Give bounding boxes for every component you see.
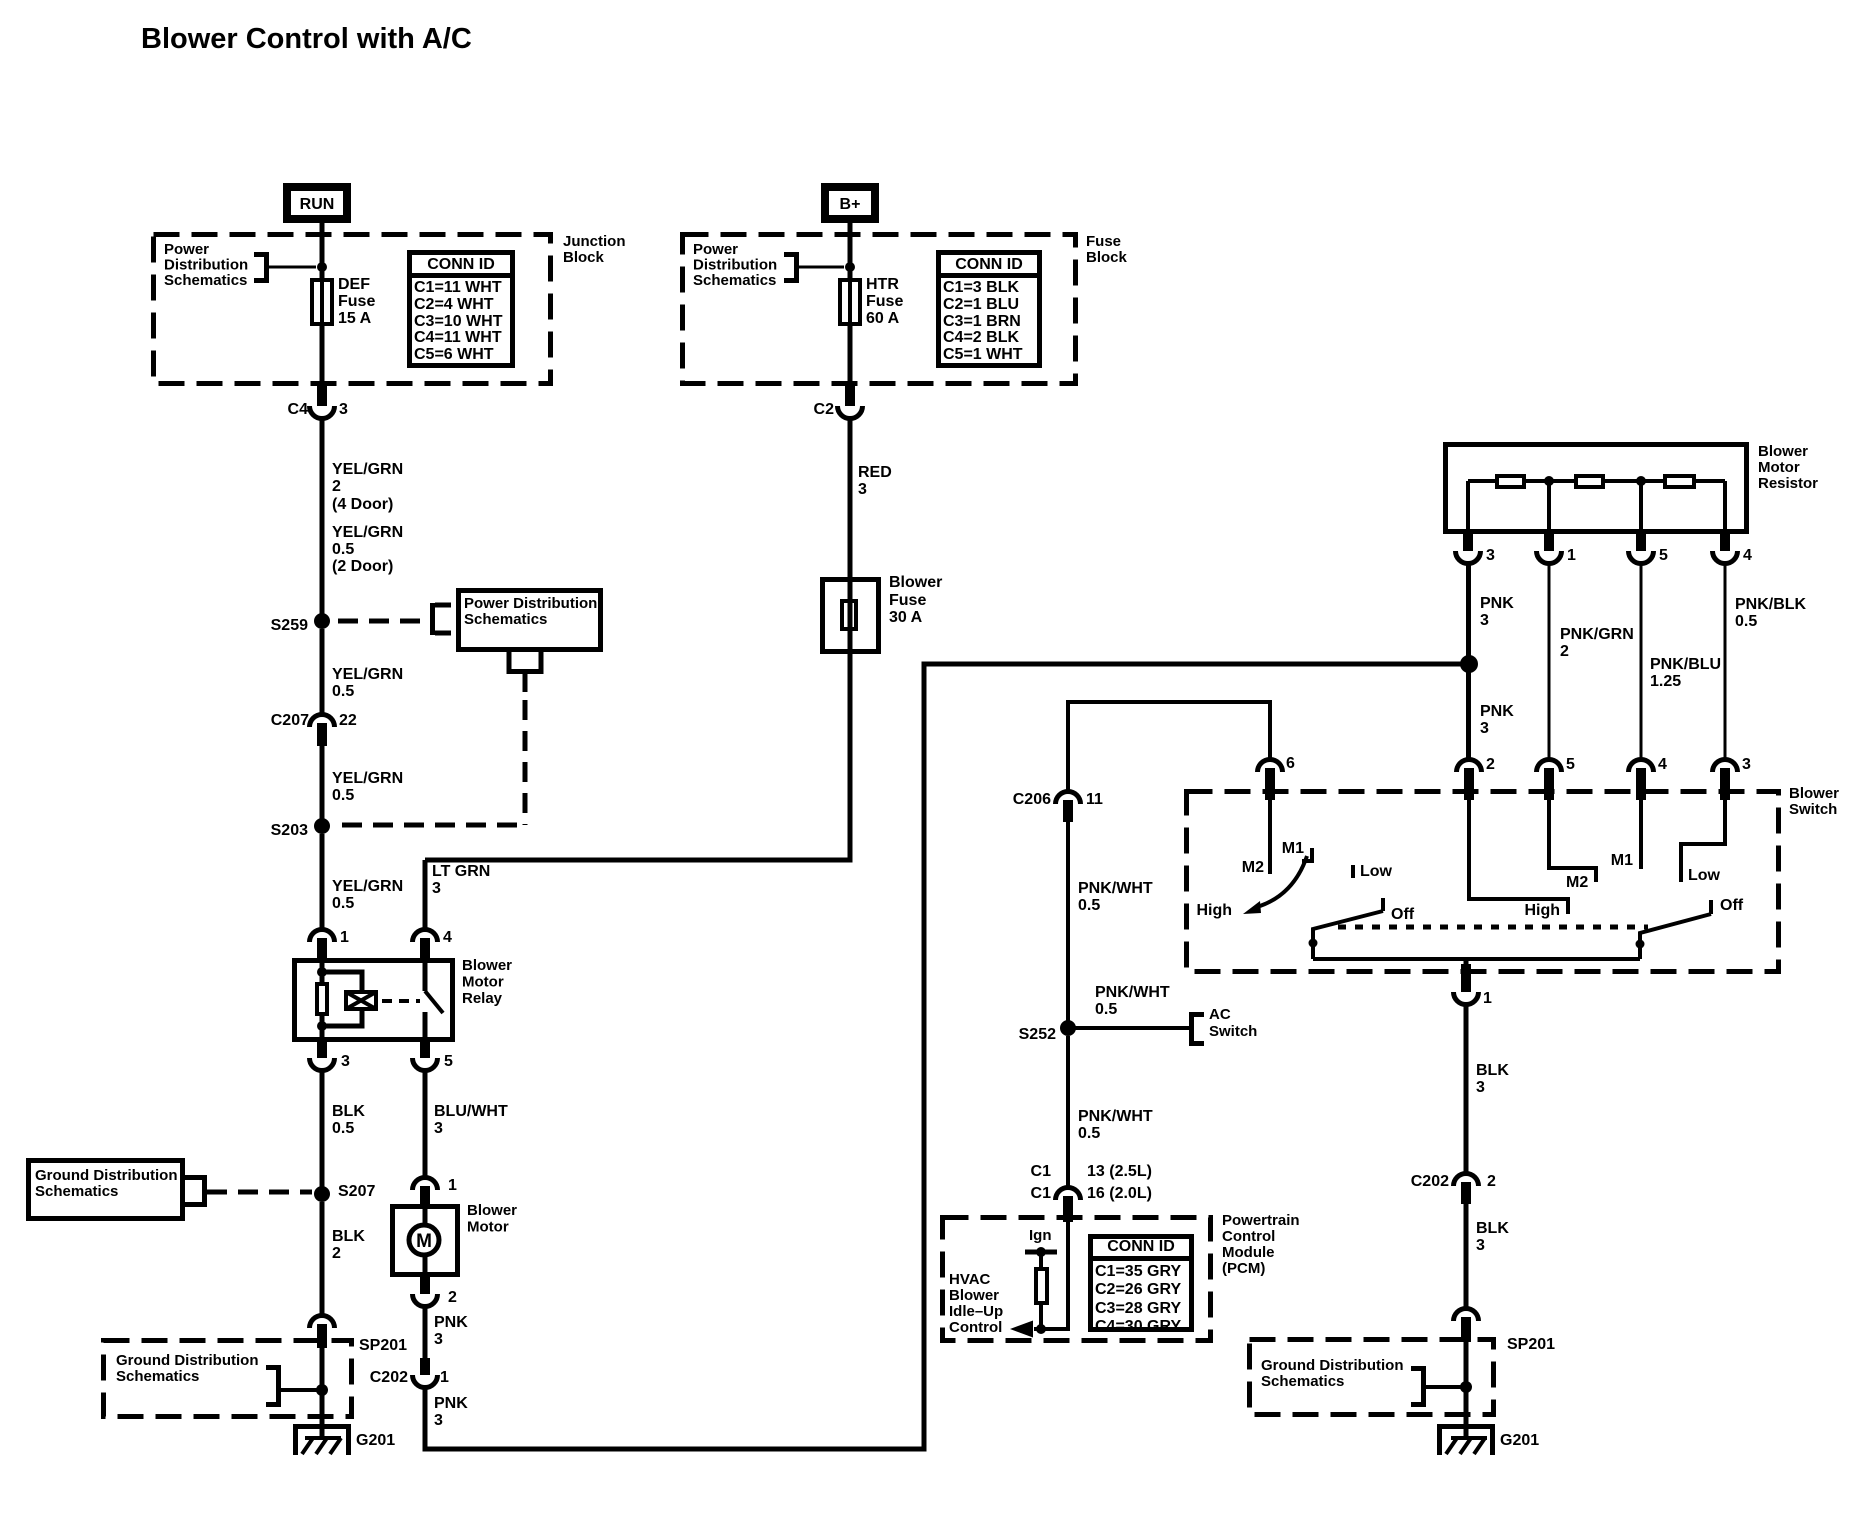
svg-text:11: 11 bbox=[1086, 791, 1103, 808]
svg-text:3: 3 bbox=[339, 401, 348, 418]
svg-text:M: M bbox=[416, 1231, 432, 1252]
svg-text:Schematics: Schematics bbox=[35, 1183, 118, 1200]
svg-text:0.5: 0.5 bbox=[332, 1120, 354, 1137]
svg-text:0.5: 0.5 bbox=[332, 683, 354, 700]
svg-text:2: 2 bbox=[1486, 756, 1495, 773]
relay coil box with X bbox=[346, 992, 376, 1009]
svg-text:1: 1 bbox=[1567, 547, 1576, 564]
svg-text:C4=11 WHT: C4=11 WHT bbox=[414, 329, 502, 346]
switch pin 3 wire to Low contact (right section) bbox=[1681, 800, 1725, 884]
wire label PNK/GRN 2 bbox=[1560, 626, 1634, 660]
wire resistor pin 5 to switch pin 4 (PNK/BLU) bbox=[1640, 563, 1643, 761]
svg-text:S207: S207 bbox=[338, 1183, 375, 1200]
svg-text:Block: Block bbox=[563, 249, 605, 266]
connector C207 pin 22 bbox=[271, 712, 357, 746]
resistor internal bus wire bbox=[1468, 481, 1725, 534]
relay coil branch wire bbox=[322, 958, 362, 992]
connector resistor pin 3 bbox=[1456, 534, 1496, 564]
svg-text:PNK: PNK bbox=[434, 1395, 468, 1412]
node PNK feed junction bbox=[1460, 655, 1478, 673]
connector relay pin 3 bbox=[310, 1042, 351, 1071]
wire switch pin 1 to C202 (BLK) bbox=[1464, 1004, 1469, 1175]
connector C206 pin 11 bbox=[1013, 791, 1103, 822]
connector blower switch pin 1 bbox=[1454, 959, 1493, 1007]
CONN ID table (PCM) bbox=[1090, 1237, 1192, 1336]
blower motor label bbox=[467, 1202, 517, 1236]
svg-text:Fuse: Fuse bbox=[889, 592, 926, 609]
svg-text:C3=28 GRY: C3=28 GRY bbox=[1095, 1300, 1181, 1317]
connector resistor pin 5 bbox=[1629, 534, 1669, 564]
node S252 splice bbox=[1019, 1020, 1076, 1043]
svg-text:G201: G201 bbox=[1500, 1432, 1539, 1449]
wire B+ to HTR fuse bbox=[848, 223, 853, 280]
wire label YEL/GRN 2 (4 Door) bbox=[332, 461, 403, 513]
svg-text:Ign: Ign bbox=[1029, 1227, 1052, 1244]
svg-text:RUN: RUN bbox=[300, 196, 335, 213]
node resistor bus junction 1 bbox=[1544, 476, 1554, 486]
svg-text:PNK/WHT: PNK/WHT bbox=[1095, 984, 1170, 1001]
svg-text:Power: Power bbox=[693, 241, 738, 258]
node: junction dot on HTR fuse feed bbox=[845, 262, 855, 272]
dashed reference wire to S207 bbox=[185, 1175, 312, 1207]
Ign supply tap bbox=[1025, 1227, 1057, 1269]
resistor element R3 bbox=[1665, 476, 1694, 487]
svg-text:BLK: BLK bbox=[1476, 1062, 1509, 1079]
switch Off contact (right section) bbox=[1711, 897, 1744, 914]
wire label PNK/WHT 0.5 (AC switch branch) bbox=[1095, 984, 1170, 1018]
svg-text:S203: S203 bbox=[271, 822, 308, 839]
fuse block label bbox=[1086, 233, 1128, 266]
switch wiper common bus wire bbox=[1313, 957, 1640, 961]
svg-text:Block: Block bbox=[1086, 249, 1128, 266]
svg-text:Fuse: Fuse bbox=[1086, 233, 1121, 250]
svg-text:Relay: Relay bbox=[462, 990, 503, 1007]
svg-text:S259: S259 bbox=[271, 617, 308, 634]
wire label PNK/WHT 0.5 (to PCM) bbox=[1078, 1108, 1153, 1142]
svg-text:SP201: SP201 bbox=[359, 1337, 407, 1354]
PCM dashed box (Powertrain Control Module) bbox=[943, 1218, 1211, 1341]
svg-text:Schematics: Schematics bbox=[116, 1368, 199, 1385]
svg-text:3: 3 bbox=[1742, 756, 1751, 773]
svg-text:Off: Off bbox=[1391, 906, 1415, 923]
svg-text:C5=1 WHT: C5=1 WHT bbox=[943, 346, 1023, 363]
svg-text:Blower: Blower bbox=[1758, 443, 1808, 460]
node SP201 junction dot (right) bbox=[1460, 1381, 1472, 1393]
wire label PNK/BLU 1.25 bbox=[1650, 656, 1721, 690]
svg-text:PNK: PNK bbox=[1480, 595, 1514, 612]
svg-text:Fuse: Fuse bbox=[866, 293, 903, 310]
svg-text:Junction: Junction bbox=[563, 233, 626, 250]
svg-text:Switch: Switch bbox=[1209, 1023, 1257, 1040]
svg-text:Blower Control with A/C: Blower Control with A/C bbox=[141, 23, 472, 55]
wire resistor pin 1 to switch pin 5 (PNK/GRN) bbox=[1548, 563, 1551, 761]
svg-text:M1: M1 bbox=[1611, 852, 1633, 869]
wire label PNK 3 bbox=[434, 1314, 468, 1348]
RUN ignition terminal bbox=[283, 183, 351, 223]
svg-text:PNK/GRN: PNK/GRN bbox=[1560, 626, 1634, 643]
svg-text:M2: M2 bbox=[1566, 874, 1588, 891]
node switch wiper pivot (right) bbox=[1636, 940, 1645, 949]
blower switch dashed box bbox=[1187, 792, 1779, 972]
svg-text:Switch: Switch bbox=[1789, 801, 1837, 818]
svg-text:Powertrain: Powertrain bbox=[1222, 1212, 1300, 1229]
node S203 splice bbox=[271, 818, 330, 839]
wire S203 to relay pin 1 (YEL/GRN) bbox=[320, 834, 325, 931]
power distribution schematics box bbox=[459, 591, 601, 650]
svg-text:PNK/BLU: PNK/BLU bbox=[1650, 656, 1721, 673]
svg-text:2: 2 bbox=[1560, 643, 1569, 660]
svg-text:C1=35 GRY: C1=35 GRY bbox=[1095, 1263, 1181, 1280]
wire label PNK/BLK 0.5 bbox=[1735, 596, 1807, 630]
blower motor M1 box bbox=[393, 1206, 458, 1277]
switch pin 6 wire to M2 contact (left section) bbox=[1242, 800, 1270, 876]
svg-text:C4=30 GRY: C4=30 GRY bbox=[1095, 1318, 1181, 1335]
connector C202 pin 2 bbox=[1411, 1173, 1496, 1204]
svg-text:M1: M1 bbox=[1282, 840, 1304, 857]
wire resistor pin 4 to switch pin 3 (PNK/BLK) bbox=[1724, 563, 1727, 761]
svg-text:YEL/GRN: YEL/GRN bbox=[332, 524, 403, 541]
svg-text:(2 Door): (2 Door) bbox=[332, 558, 393, 575]
splice pack SP201 dashed box (left) bbox=[104, 1337, 408, 1417]
node S207 splice bbox=[314, 1183, 375, 1202]
svg-text:YEL/GRN: YEL/GRN bbox=[332, 770, 403, 787]
wire label YEL/GRN 0.5 bbox=[332, 878, 403, 912]
connector to splice pack SP201 (right) bbox=[1454, 1309, 1479, 1343]
svg-text:Control: Control bbox=[949, 1319, 1002, 1336]
svg-text:C4=2 BLK: C4=2 BLK bbox=[943, 329, 1019, 346]
PCM pull-up resistor bbox=[1036, 1269, 1047, 1303]
wire C1 into PCM idle-up node bbox=[1034, 1222, 1068, 1329]
svg-text:3: 3 bbox=[1476, 1237, 1485, 1254]
svg-text:C3=1 BRN: C3=1 BRN bbox=[943, 313, 1021, 330]
wire label RED 3 bbox=[858, 464, 892, 498]
svg-text:Schematics: Schematics bbox=[464, 611, 547, 628]
switch High label (left section) bbox=[1196, 902, 1232, 919]
svg-text:3: 3 bbox=[1480, 612, 1489, 629]
svg-text:5: 5 bbox=[1566, 756, 1575, 773]
svg-text:HTR: HTR bbox=[866, 276, 899, 293]
svg-text:BLK: BLK bbox=[332, 1103, 365, 1120]
svg-text:3: 3 bbox=[434, 1412, 443, 1429]
svg-text:Power: Power bbox=[164, 241, 209, 258]
svg-text:6: 6 bbox=[1286, 755, 1295, 772]
relay switch contact (pin4 side) bbox=[423, 958, 428, 991]
node SP201 junction dot (left) bbox=[316, 1384, 328, 1396]
power distribution schematics reference (junction block) bbox=[164, 241, 316, 289]
svg-text:Power Distribution: Power Distribution bbox=[464, 595, 597, 612]
svg-text:CONN ID: CONN ID bbox=[1107, 1238, 1175, 1255]
svg-text:0.5: 0.5 bbox=[1078, 897, 1100, 914]
wire label PNK/WHT 0.5 bbox=[1078, 880, 1153, 914]
svg-text:PNK/BLK: PNK/BLK bbox=[1735, 596, 1807, 613]
node idle-up junction bbox=[1036, 1324, 1046, 1334]
wire label BLK 3 (lower right) bbox=[1476, 1220, 1509, 1254]
svg-text:3: 3 bbox=[434, 1120, 443, 1137]
svg-text:Resistor: Resistor bbox=[1758, 475, 1818, 492]
connector relay pin 5 bbox=[413, 1042, 454, 1071]
svg-text:S252: S252 bbox=[1019, 1026, 1056, 1043]
connector blower motor pin 1 bbox=[413, 1177, 458, 1206]
svg-text:C202: C202 bbox=[370, 1369, 408, 1386]
blower motor resistor box bbox=[1446, 445, 1747, 532]
wire label PNK 3 (lower) bbox=[1480, 703, 1514, 737]
svg-text:M2: M2 bbox=[1242, 859, 1264, 876]
svg-text:Control: Control bbox=[1222, 1228, 1275, 1245]
node: junction dot on DEF fuse feed bbox=[317, 262, 327, 272]
connector blower motor pin 2 bbox=[413, 1277, 458, 1307]
ground distribution schematics box (S207) bbox=[29, 1161, 183, 1219]
svg-text:Ground Distribution: Ground Distribution bbox=[1261, 1357, 1403, 1374]
wire resistor to idle-up node bbox=[1039, 1305, 1043, 1329]
wire C202 to blower switch feed (PNK, bottom route) bbox=[425, 664, 1469, 1449]
svg-text:CONN ID: CONN ID bbox=[427, 256, 495, 273]
wire relay pin 3 to S207 (BLK) bbox=[320, 1070, 325, 1188]
switch pin 5 wire to M2 contact (right section) bbox=[1549, 800, 1596, 891]
wire label BLK 3 (upper right) bbox=[1476, 1062, 1509, 1096]
svg-text:C4: C4 bbox=[288, 401, 309, 418]
svg-text:3: 3 bbox=[1480, 720, 1489, 737]
svg-text:3: 3 bbox=[341, 1053, 350, 1070]
svg-text:Idle–Up: Idle–Up bbox=[949, 1303, 1003, 1320]
wire S252 to PCM C1 (PNK/WHT) bbox=[1066, 1036, 1070, 1189]
svg-text:Blower: Blower bbox=[949, 1287, 999, 1304]
junction block label bbox=[563, 233, 626, 266]
relay actuation dashed link bbox=[382, 999, 420, 1003]
svg-text:5: 5 bbox=[1659, 547, 1668, 564]
relay switch lower contact to pin 5 bbox=[423, 1012, 428, 1042]
wire label LT GRN 3 bbox=[432, 863, 490, 897]
wire C202 to SP201 (BLK) bbox=[1464, 1204, 1469, 1310]
ground distribution schematics reference (SP201 left) bbox=[116, 1352, 322, 1407]
wire blower fuse to relay pin 4 (LT GRN) bbox=[425, 860, 853, 931]
relay switch blade bbox=[425, 991, 443, 1013]
svg-text:2: 2 bbox=[1487, 1173, 1496, 1190]
wire HTR fuse to C2 bbox=[848, 326, 853, 390]
svg-text:2: 2 bbox=[332, 1245, 341, 1262]
svg-text:Off: Off bbox=[1720, 897, 1744, 914]
svg-text:Distribution: Distribution bbox=[693, 257, 777, 274]
svg-text:PNK: PNK bbox=[434, 1314, 468, 1331]
connector blower switch pin 3 bbox=[1713, 756, 1752, 800]
svg-text:0.5: 0.5 bbox=[332, 541, 354, 558]
svg-text:SP201: SP201 bbox=[1507, 1336, 1555, 1353]
wire label YEL/GRN 0.5 bbox=[332, 770, 403, 804]
svg-text:High: High bbox=[1196, 902, 1232, 919]
switch M1 contact (left section) bbox=[1282, 840, 1312, 861]
switch pin 4 wire to M1 contact (right section) bbox=[1611, 800, 1641, 869]
svg-text:22: 22 bbox=[339, 712, 357, 729]
svg-text:0.5: 0.5 bbox=[1095, 1001, 1117, 1018]
svg-text:C206: C206 bbox=[1013, 791, 1051, 808]
switch wiper blade (right section) bbox=[1640, 914, 1711, 959]
wire SP201 to ground G201 (left) bbox=[320, 1348, 325, 1438]
switch Off contact (left section) bbox=[1383, 898, 1415, 923]
svg-text:0.5: 0.5 bbox=[1735, 613, 1757, 630]
wire SP201 to ground G201 (right) bbox=[1464, 1342, 1469, 1438]
svg-text:PNK/WHT: PNK/WHT bbox=[1078, 1108, 1153, 1125]
svg-text:C2: C2 bbox=[814, 401, 835, 418]
switch mechanical link dotted line bbox=[1338, 925, 1648, 930]
svg-text:Motor: Motor bbox=[462, 974, 504, 991]
svg-text:16 (2.0L): 16 (2.0L) bbox=[1087, 1185, 1152, 1202]
junction block dashed box bbox=[154, 235, 551, 384]
connector resistor pin 1 bbox=[1537, 534, 1577, 564]
connector blower switch pin 4 bbox=[1629, 756, 1668, 800]
relay label bbox=[462, 957, 512, 1007]
svg-text:YEL/GRN: YEL/GRN bbox=[332, 666, 403, 683]
relay U1 box (Blower Motor Relay) bbox=[295, 961, 453, 1040]
dashed reference wire power distribution box to S203 bbox=[334, 652, 541, 825]
power distribution schematics reference (fuse block) bbox=[693, 241, 844, 289]
svg-text:PNK: PNK bbox=[1480, 703, 1514, 720]
svg-text:Low: Low bbox=[1688, 867, 1721, 884]
svg-text:Blower: Blower bbox=[889, 574, 942, 591]
dashed reference wire S259 to power distribution schematics box bbox=[338, 603, 451, 635]
wire C206 to S252 (PNK/WHT) bbox=[1066, 822, 1070, 1022]
node resistor bus junction 2 bbox=[1636, 476, 1646, 486]
svg-text:Low: Low bbox=[1360, 863, 1393, 880]
svg-text:0.5: 0.5 bbox=[332, 787, 354, 804]
svg-text:(4 Door): (4 Door) bbox=[332, 496, 393, 513]
connector C2 bbox=[814, 386, 863, 419]
svg-text:Fuse: Fuse bbox=[338, 293, 375, 310]
svg-text:3: 3 bbox=[1476, 1079, 1485, 1096]
svg-text:Blower: Blower bbox=[467, 1202, 517, 1219]
svg-text:4: 4 bbox=[443, 929, 452, 946]
svg-text:1: 1 bbox=[448, 1177, 457, 1194]
svg-text:BLK: BLK bbox=[332, 1228, 365, 1245]
resistor element R2 bbox=[1576, 476, 1603, 487]
fuse DEF Fuse 15 A bbox=[312, 276, 375, 327]
svg-text:BLK: BLK bbox=[1476, 1220, 1509, 1237]
wire S259 to C207 (YEL/GRN) bbox=[320, 629, 325, 716]
svg-text:YEL/GRN: YEL/GRN bbox=[332, 878, 403, 895]
svg-text:C2=26 GRY: C2=26 GRY bbox=[1095, 1281, 1181, 1298]
svg-text:Blower: Blower bbox=[1789, 785, 1839, 802]
svg-text:LT GRN: LT GRN bbox=[432, 863, 490, 880]
svg-text:Motor: Motor bbox=[467, 1219, 509, 1236]
AC switch reference bracket bbox=[1189, 1006, 1257, 1046]
connector relay pin 1 bbox=[310, 929, 350, 958]
CONN ID table (junction block) bbox=[409, 253, 513, 366]
svg-text:DEF: DEF bbox=[338, 276, 370, 293]
svg-text:C1: C1 bbox=[1031, 1163, 1052, 1180]
wire S207 to SP201 (BLK) bbox=[320, 1202, 325, 1317]
blower motor resistor label bbox=[1758, 443, 1818, 492]
svg-text:Motor: Motor bbox=[1758, 459, 1800, 476]
svg-text:30 A: 30 A bbox=[889, 609, 923, 626]
node relay coil bottom junction bbox=[317, 1021, 327, 1031]
wire label PNK 3 (upper) bbox=[1480, 595, 1514, 629]
svg-text:Ground Distribution: Ground Distribution bbox=[116, 1352, 258, 1369]
svg-text:CONN ID: CONN ID bbox=[955, 256, 1023, 273]
wire C2 to blower fuse bbox=[848, 418, 853, 579]
motor symbol M bbox=[409, 1225, 439, 1255]
node S259 splice bbox=[271, 613, 330, 634]
svg-text:RED: RED bbox=[858, 464, 892, 481]
ground G201 (left) bbox=[293, 1424, 395, 1455]
svg-text:60 A: 60 A bbox=[866, 310, 900, 327]
svg-text:Blower: Blower bbox=[462, 957, 512, 974]
relay internal resistor bbox=[317, 984, 327, 1014]
wire label BLU/WHT 3 bbox=[434, 1103, 508, 1137]
CONN ID table (fuse block) bbox=[938, 253, 1040, 366]
wire label YEL/GRN 0.5 bbox=[332, 666, 403, 700]
fuse block dashed box bbox=[683, 235, 1076, 384]
svg-text:1: 1 bbox=[440, 1369, 449, 1386]
svg-text:1: 1 bbox=[340, 929, 349, 946]
svg-text:1.25: 1.25 bbox=[1650, 673, 1681, 690]
svg-text:2: 2 bbox=[448, 1289, 457, 1306]
svg-text:0.5: 0.5 bbox=[332, 895, 354, 912]
svg-text:4: 4 bbox=[1743, 547, 1752, 564]
svg-text:C5=6 WHT: C5=6 WHT bbox=[414, 346, 494, 363]
svg-text:C1=11 WHT: C1=11 WHT bbox=[414, 279, 502, 296]
svg-text:HVAC: HVAC bbox=[949, 1271, 991, 1288]
connector blower switch pin 5 bbox=[1537, 756, 1576, 800]
svg-text:5: 5 bbox=[444, 1053, 453, 1070]
svg-text:G201: G201 bbox=[356, 1432, 395, 1449]
svg-text:3: 3 bbox=[434, 1331, 443, 1348]
connector blower switch pin 6 bbox=[1258, 755, 1296, 800]
node relay coil top junction bbox=[317, 967, 327, 977]
switch wiper blade (left section) bbox=[1313, 911, 1383, 959]
blower switch label bbox=[1789, 785, 1839, 818]
svg-text:4: 4 bbox=[1658, 756, 1667, 773]
svg-text:13 (2.5L): 13 (2.5L) bbox=[1087, 1163, 1152, 1180]
wire RUN to DEF fuse bbox=[320, 223, 325, 280]
svg-text:3: 3 bbox=[1486, 547, 1495, 564]
wire junction to C206 and switch pin 6 bbox=[1068, 702, 1270, 793]
svg-text:YEL/GRN: YEL/GRN bbox=[332, 461, 403, 478]
connector blower switch pin 2 bbox=[1457, 756, 1496, 800]
switch pin 2 wire to High contact (right section) bbox=[1469, 800, 1568, 919]
svg-text:2: 2 bbox=[332, 478, 341, 495]
svg-text:PNK/WHT: PNK/WHT bbox=[1078, 880, 1153, 897]
HVAC blower idle-up control label bbox=[949, 1271, 1003, 1336]
svg-text:C207: C207 bbox=[271, 712, 309, 729]
svg-text:High: High bbox=[1524, 902, 1560, 919]
svg-text:(PCM): (PCM) bbox=[1222, 1260, 1265, 1277]
svg-text:C202: C202 bbox=[1411, 1173, 1449, 1190]
HVAC idle-up output arrow bbox=[1010, 1321, 1033, 1338]
node switch wiper pivot (left) bbox=[1309, 939, 1318, 948]
svg-text:Schematics: Schematics bbox=[1261, 1373, 1344, 1390]
connector C202 pin 1 bbox=[370, 1358, 449, 1388]
svg-text:C3=10 WHT: C3=10 WHT bbox=[414, 313, 503, 330]
B+ battery terminal bbox=[821, 183, 879, 223]
resistor element R1 bbox=[1497, 476, 1524, 487]
wire label BLK 2 bbox=[332, 1228, 365, 1262]
svg-text:Module: Module bbox=[1222, 1244, 1275, 1261]
svg-text:C2=4 WHT: C2=4 WHT bbox=[414, 296, 494, 313]
connector C1 pin 13 (2.5L) / pin 16 (2.0L) bbox=[1031, 1163, 1152, 1222]
ground G201 (right) bbox=[1437, 1424, 1539, 1455]
switch Low contact (left section) bbox=[1353, 863, 1393, 880]
wire relay pin 5 to blower motor (BLU/WHT) bbox=[423, 1070, 428, 1179]
svg-text:3: 3 bbox=[858, 481, 867, 498]
relay coil bottom return wire bbox=[322, 1011, 362, 1042]
svg-text:BLU/WHT: BLU/WHT bbox=[434, 1103, 508, 1120]
svg-text:C1=3 BLK: C1=3 BLK bbox=[943, 279, 1019, 296]
svg-text:C2=1 BLU: C2=1 BLU bbox=[943, 296, 1019, 313]
connector to splice pack SP201 (left) bbox=[310, 1316, 335, 1349]
svg-text:15 A: 15 A bbox=[338, 310, 372, 327]
svg-text:Ground Distribution: Ground Distribution bbox=[35, 1167, 177, 1184]
svg-text:0.5: 0.5 bbox=[1078, 1125, 1100, 1142]
svg-text:Schematics: Schematics bbox=[164, 272, 247, 289]
connector C4 pin 3 bbox=[288, 386, 348, 419]
